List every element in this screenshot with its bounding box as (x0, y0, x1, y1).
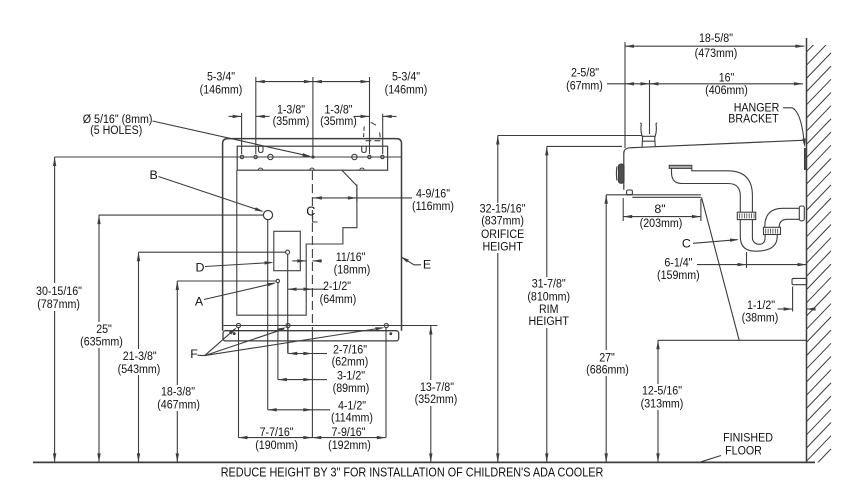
extension line recess step (356, 185, 358, 203)
dimension 27 (686mm) (586, 195, 629, 463)
svg-text:(313mm): (313mm) (641, 396, 684, 410)
side view: trap slip nut lower (764, 227, 781, 234)
svg-text:(467mm): (467mm) (157, 398, 200, 412)
svg-text:(635mm): (635mm) (80, 334, 123, 348)
side view: drain cup and horizontal arm (672, 168, 729, 183)
svg-text:(62mm): (62mm) (332, 355, 369, 369)
extension line F3 down (385, 328, 387, 438)
front view: bubbler hidden outline dash 1 (363, 127, 366, 138)
dimension 3-1/2 (89mm) (278, 369, 369, 395)
extension line hole6 up (369, 77, 371, 154)
front view: rail rivet right (390, 333, 392, 335)
extension line hole1 up (241, 113, 243, 154)
dimension 7-7/16 (190mm) (239, 425, 313, 452)
front view: rail rivet left (233, 333, 235, 335)
svg-text:7-7/16": 7-7/16" (260, 425, 294, 439)
extension line F1 down (238, 328, 240, 438)
svg-text:(473mm): (473mm) (695, 46, 738, 60)
front view: centerline CL symbol (306, 205, 317, 222)
dimension 32-15/16 (837mm) orifice height (480, 136, 642, 463)
front view: hole 1 (5/16 in.) (240, 155, 243, 158)
dimension 2-1/2 (64mm) (288, 279, 357, 306)
side view: underside line (27in reference) (606, 194, 701, 196)
svg-text:(543mm): (543mm) (118, 362, 161, 376)
svg-text:C: C (682, 237, 691, 251)
dimension 4-9/16 (116mm) (313, 186, 454, 213)
side view: underside second line (632, 196, 701, 198)
extension line A down (277, 283, 279, 380)
svg-text:(787mm): (787mm) (37, 297, 80, 311)
finished floor line (33, 461, 815, 463)
dimension 1-3/8 left (35mm) (229, 103, 310, 128)
dimension 2-7/16 (62mm) (288, 342, 368, 368)
front view: hole centerline through bracket (30-15/16 extension) (55, 156, 402, 158)
side view: hanger bracket profile (804, 148, 806, 170)
svg-text:E: E (423, 258, 431, 272)
svg-text:HEIGHT: HEIGHT (482, 239, 523, 253)
svg-text:A: A (195, 295, 204, 309)
dimension 16 (406mm) (650, 70, 803, 96)
svg-text:F: F (190, 347, 198, 361)
svg-text:D: D (196, 261, 205, 275)
side view: drain strainer flange (669, 165, 692, 168)
svg-text:(64mm): (64mm) (320, 292, 357, 306)
front view: bracket bottom notch right (360, 168, 364, 170)
svg-text:C: C (306, 205, 315, 219)
side view: trap slip nut upper (737, 212, 755, 219)
svg-text:(67mm): (67mm) (566, 78, 603, 92)
front view: hole D (286, 250, 290, 254)
extension line B down (267, 220, 269, 410)
front view: bracket bottom notch left (258, 168, 262, 170)
dimension 1-3/8 right (35mm) (320, 103, 396, 128)
extension line hole2 up (255, 77, 257, 154)
side view: escutcheon at wall (799, 206, 804, 221)
label C with leader (trap) (682, 237, 739, 251)
label FINISHED FLOOR with leader (701, 431, 773, 462)
front view: bracket slot left (259, 146, 264, 152)
svg-text:(18mm): (18mm) (334, 263, 371, 277)
front view: hole 7 (5/16 in.) (381, 155, 384, 158)
svg-text:(146mm): (146mm) (200, 82, 243, 96)
svg-text:HEIGHT: HEIGHT (529, 314, 570, 328)
svg-text:BRACKET: BRACKET (728, 112, 779, 126)
front view: hole 6 (5/16 in.) (368, 155, 371, 158)
extension line center up (312, 77, 314, 156)
svg-text:(89mm): (89mm) (333, 381, 370, 395)
label B with leader (149, 168, 263, 212)
side view: push button (616, 164, 624, 183)
svg-text:(352mm): (352mm) (415, 392, 458, 406)
label A with leader (195, 283, 276, 309)
dimension 31-7/8 (810mm) rim height (527, 146, 622, 462)
svg-text:(203mm): (203mm) (640, 216, 683, 230)
extension line bubbler up (649, 80, 651, 134)
svg-text:REDUCE HEIGHT BY 3" FOR INSTAL: REDUCE HEIGHT BY 3" FOR INSTALLATION OF … (221, 466, 604, 480)
side view: waste stub-out at wall (792, 278, 807, 284)
dimension 1-1/2 (38mm) (742, 298, 816, 325)
front view: bracket slot right (362, 146, 367, 152)
front view: F hole line with three holes (224, 323, 438, 327)
side view: elbow down to trap (728, 171, 753, 212)
dimension 4-1/2 (114mm) (268, 398, 373, 424)
dimension 5-3/4 right (146mm) (313, 70, 427, 97)
front view: wall plate outline (223, 139, 402, 331)
callout: diameter 5/16 (8mm) 5 holes (83, 112, 312, 157)
svg-text:(146mm): (146mm) (385, 82, 428, 96)
svg-text:8": 8" (654, 202, 665, 216)
extension line front face down (622, 198, 624, 221)
svg-text:18-3/8": 18-3/8" (161, 385, 195, 399)
svg-text:(190mm): (190mm) (255, 438, 298, 452)
label HANGER BRACKET with leader (728, 101, 805, 148)
svg-text:18-5/8": 18-5/8" (699, 31, 733, 45)
label D with leader (196, 261, 274, 275)
front view: bottom rail of plate (223, 331, 399, 341)
front view: dashed vertical centerline (311, 171, 313, 327)
side view: bubbler (640, 123, 657, 147)
extension line F2 down (287, 328, 289, 354)
extension line trap bottom down (746, 252, 748, 268)
label E with leader (400, 256, 431, 271)
front view: bubbler hidden outline dash 2 (371, 122, 376, 125)
dimension 6-1/4 (159mm) (657, 256, 806, 282)
side view: lower clearance line (658, 339, 807, 341)
dimension 11/16 (18mm) (292, 250, 370, 277)
svg-text:(192mm): (192mm) (328, 438, 371, 452)
svg-text:21-3/8": 21-3/8" (123, 349, 157, 363)
extension line underside right down (700, 199, 702, 221)
extension line hole7 up (382, 114, 384, 154)
svg-text:(114mm): (114mm) (331, 411, 373, 425)
front view: keyhole slot left (268, 154, 273, 159)
label F with leaders to three holes (190, 327, 384, 361)
dimension 30-15/16 (787mm) overall height (36, 157, 82, 462)
svg-text:7-9/16": 7-9/16" (332, 425, 366, 439)
svg-text:(35mm): (35mm) (320, 114, 357, 128)
side view: cooler top surface (629, 140, 805, 148)
svg-text:(5 HOLES): (5 HOLES) (90, 123, 142, 137)
front view: hole 2 (5/16 in.) (254, 155, 257, 158)
front view: rectangle D (outlet box) (274, 231, 301, 270)
dimension 2-5/8 (67mm) (566, 65, 649, 92)
svg-text:2-5/8": 2-5/8" (571, 65, 599, 79)
front view: centerline extension below plate (311, 327, 313, 438)
front view: mounting bracket strip (237, 146, 387, 170)
svg-text:FLOOR: FLOOR (725, 443, 762, 457)
side view: trap U-bend (740, 220, 777, 252)
extension line front of cooler up (624, 42, 626, 148)
side view: front bullnose and face (624, 148, 629, 190)
front view: bubbler hidden outline dash 3 (379, 132, 382, 137)
svg-text:B: B (149, 168, 157, 182)
front view: circle B (water inlet) (263, 211, 272, 220)
wall with hatching (807, 27, 832, 475)
side view: trap outlet elbow to wall (765, 208, 800, 227)
dimension 25 (635mm) inlet height (80, 215, 263, 462)
dimension 21-3/8 (543mm) outlet height (118, 252, 286, 462)
front view: bracket bottom notch center (310, 168, 314, 170)
front view: hole A (276, 279, 279, 282)
front view: recessed back panel stepped outline (237, 170, 357, 315)
front view: bubbler hidden outline bottom dashes (366, 140, 381, 142)
svg-text:(35mm): (35mm) (273, 114, 310, 128)
svg-text:(686mm): (686mm) (586, 363, 629, 377)
side view: drain slope diagonal (702, 197, 740, 340)
svg-text:(159mm): (159mm) (657, 268, 700, 282)
dimension 18-3/8 (467mm) hole A height (157, 281, 276, 462)
svg-text:(116mm): (116mm) (412, 199, 454, 213)
dimension 8 (203mm) (623, 202, 701, 230)
extension line hole D down (287, 255, 289, 354)
dimension 13-7/8 (352mm) rail height (415, 326, 458, 463)
extension line stub down (792, 287, 794, 312)
dimension 12-5/16 (313mm) (641, 340, 684, 462)
dimension 5-3/4 left (146mm) (200, 70, 313, 97)
svg-text:(406mm): (406mm) (705, 83, 748, 97)
dimension 18-5/8 (473mm) (625, 31, 804, 60)
dimension 7-9/16 (192mm) (312, 425, 386, 452)
svg-text:30-15/16": 30-15/16" (36, 284, 82, 298)
svg-text:(38mm): (38mm) (742, 310, 779, 324)
svg-text:(837mm): (837mm) (481, 214, 524, 228)
caption (221, 466, 604, 480)
front view: center hole (5/16 in.) (312, 156, 314, 158)
front view: keyhole slot right (352, 154, 357, 159)
side view: front foot (627, 190, 633, 195)
